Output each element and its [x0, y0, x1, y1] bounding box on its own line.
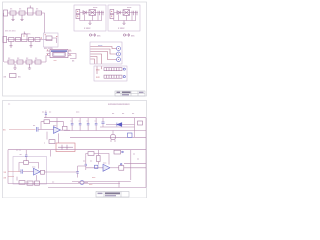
note box — [10, 74, 17, 78]
resistor R33 — [114, 150, 121, 154]
output wire — [61, 129, 71, 131]
B1 title — [93, 7, 98, 9]
output wire C — [110, 167, 146, 169]
J5 pin dots — [111, 11, 112, 17]
ground G7 — [89, 21, 92, 25]
resistor R36 — [35, 181, 40, 185]
ground G3 — [9, 42, 12, 48]
stage B bottom text — [27, 183, 30, 185]
top cap C10 — [45, 113, 47, 114]
resistor R6 — [16, 38, 21, 42]
ground G6 — [28, 64, 31, 69]
small part right — [138, 121, 143, 125]
cap C22 — [87, 123, 90, 125]
sheet2 title table — [96, 192, 129, 198]
resistor R12 — [35, 60, 41, 64]
connector J4 — [76, 10, 80, 19]
B3 title — [98, 45, 103, 47]
left rail — [7, 150, 9, 184]
stage B verticals — [17, 175, 37, 180]
wire into opamp C — [78, 166, 103, 168]
vertical drop right — [118, 181, 120, 187]
input wires — [8, 172, 21, 177]
resistor R10 — [17, 60, 23, 64]
bottom labels — [89, 184, 93, 186]
title block text — [117, 92, 121, 93]
output junction B — [41, 170, 45, 174]
B3 wire w6 — [90, 59, 94, 64]
stage A bottom text — [44, 143, 46, 145]
B3 wire w2 — [90, 49, 116, 54]
note tail — [18, 76, 21, 79]
B1 bottom label — [84, 28, 91, 30]
ground G4 — [29, 42, 32, 48]
pin dots C2 — [45, 34, 58, 37]
header H1 body — [104, 68, 122, 71]
psu box B2 outline — [108, 5, 140, 31]
op-amp U3 — [34, 168, 41, 175]
opamp top pin — [56, 118, 58, 128]
label right of U1 — [72, 61, 75, 63]
header H2 body — [104, 75, 122, 78]
sheet1 title block — [115, 91, 145, 96]
bus label — [16, 149, 22, 151]
stage B cap label — [20, 154, 23, 156]
resistor R5 — [9, 38, 15, 42]
top cap C13 — [25, 155, 27, 157]
cap C20 — [71, 123, 74, 125]
connector J5 — [110, 10, 114, 19]
wire y127 — [100, 126, 135, 128]
top rail bus — [44, 117, 146, 119]
diode D2 — [117, 11, 120, 15]
regulator VR1 — [89, 10, 96, 16]
vertical right of diode — [134, 118, 136, 138]
box B4 outline — [94, 66, 127, 81]
U1 left pins — [47, 51, 51, 56]
op-amp U4 — [103, 164, 110, 171]
sheet2 header text — [108, 103, 130, 106]
ground G2 — [20, 15, 23, 21]
bottom circle part Q2 — [78, 181, 88, 185]
feedback resistor R30 — [24, 161, 29, 165]
connector J1 — [4, 10, 8, 16]
B3 wire w5 — [90, 57, 97, 64]
feedback resistor R20 — [44, 120, 50, 124]
capacitor C5 — [136, 11, 137, 16]
red box contents — [58, 145, 73, 150]
IC U1 — [50, 50, 68, 58]
stage B box outline — [13, 157, 47, 185]
sheet 2 page outline — [3, 101, 147, 199]
input wire — [9, 128, 36, 130]
box B3 outline — [90, 42, 122, 64]
sheet2 title strip — [105, 192, 120, 194]
feedback loop wire — [41, 122, 44, 130]
red box outline — [56, 143, 75, 152]
resistor R11 — [26, 60, 32, 64]
right side labels — [133, 154, 140, 161]
transistor Q1 — [110, 131, 115, 143]
B1 rail drops — [85, 14, 99, 20]
R33 blue dot — [122, 151, 124, 153]
wire C up to U1 — [45, 56, 47, 63]
feedback resistor R32 — [88, 152, 94, 156]
regulator VR2 — [123, 10, 130, 16]
INR label — [4, 176, 7, 179]
vertical right C — [130, 150, 132, 180]
bottom resistor R21 — [49, 140, 55, 144]
capacitor C3 — [102, 11, 103, 16]
feedback loop — [19, 163, 24, 172]
op-amp U2 — [54, 127, 61, 134]
wire B2 main — [114, 12, 138, 14]
row 2 ref text — [96, 76, 100, 79]
H1 end pin — [123, 68, 125, 70]
row 1 ref text — [96, 69, 100, 72]
resistor R34 vertical — [97, 150, 101, 165]
wire right of U1 — [70, 54, 76, 59]
resistor R2 — [19, 11, 25, 15]
sub-circuit box C2 — [44, 33, 59, 47]
stage A verticals — [47, 132, 59, 143]
stage C labels — [83, 161, 107, 165]
wire B1 main — [80, 12, 104, 14]
labels upper right — [76, 112, 135, 116]
wire C2 internal — [52, 38, 57, 43]
cap C16 — [76, 172, 78, 174]
resistor R7 — [29, 38, 34, 42]
B1 rail — [80, 13, 102, 21]
left input bus — [2, 13, 4, 62]
ground G1 — [11, 15, 14, 21]
output junction box — [63, 126, 68, 130]
sheet2 corner mark — [8, 104, 11, 106]
capacitor C2 — [98, 11, 99, 16]
pin dots row B — [23, 35, 42, 38]
wire A to C2 — [42, 13, 45, 33]
row A value labels — [10, 9, 39, 11]
input cap C14 — [21, 169, 23, 173]
wire row B — [7, 39, 52, 41]
label above IC U1 — [44, 48, 54, 50]
U1 right pins — [68, 51, 72, 56]
resistor R1 — [10, 11, 16, 15]
row C labels — [8, 58, 38, 60]
below-B2 label — [131, 36, 135, 38]
U3 label — [32, 167, 36, 169]
below-B1 label — [97, 36, 101, 38]
B2 rail drops — [119, 14, 133, 20]
IN label — [3, 129, 6, 132]
diode D10 — [117, 123, 122, 127]
cap C21 — [79, 123, 82, 125]
socket pin P3 — [117, 58, 121, 62]
ground G8 — [123, 21, 126, 25]
right rail — [145, 118, 147, 188]
text specks row — [5, 31, 31, 36]
resistor R4 — [36, 11, 42, 15]
B3 wire w4 — [90, 54, 101, 64]
sheet1 bottom-left note — [4, 76, 7, 79]
below-B2 net marker — [123, 33, 129, 36]
mid bus — [64, 130, 146, 132]
low bus — [70, 136, 146, 138]
wire y124.5 — [106, 124, 135, 126]
wire row A — [8, 12, 43, 14]
below-B1 net marker — [89, 33, 95, 36]
B2 rail — [114, 13, 136, 21]
B3 wire w3 — [90, 52, 116, 60]
diode D1 — [83, 11, 86, 15]
stage C red text — [92, 177, 96, 179]
U1 bottom red text — [54, 60, 57, 62]
trimmer inside C2 — [46, 36, 52, 41]
svg-text:xxx xx xxx: xxx xx xxx — [5, 31, 16, 33]
sheet 1 page outline — [3, 2, 147, 96]
wire red box to stage B — [50, 150, 52, 157]
inter-box drop wires — [97, 66, 102, 74]
ground G5 — [13, 64, 16, 69]
psu box B1 outline — [74, 5, 106, 31]
output wire B — [45, 171, 78, 173]
B3 wire w1 — [90, 47, 116, 49]
junction blue dot — [120, 163, 122, 165]
stage A labels — [33, 111, 57, 127]
bottom bus 2 — [48, 187, 146, 189]
connector J2 — [3, 37, 7, 43]
wire row C — [4, 61, 46, 63]
svg-text:xxx: xxx — [54, 60, 57, 62]
resistor R8 — [35, 38, 40, 42]
potentiometer RV1 — [28, 6, 34, 16]
B2 title — [127, 7, 132, 9]
socket pin P1 — [117, 47, 121, 51]
input cap C11 — [36, 127, 38, 132]
capacitor C4 — [132, 11, 133, 16]
long bus 2 — [8, 149, 146, 151]
output junction C — [119, 166, 124, 171]
B2 bottom label — [118, 28, 125, 30]
INL label — [4, 171, 7, 174]
cap C23 — [95, 123, 98, 125]
H2 end pin — [123, 76, 125, 78]
svg-text:x xxxx: x xxxx — [84, 28, 91, 30]
bottom resistor R31 — [19, 181, 25, 185]
resistor R35 — [27, 181, 33, 185]
stage C bottom wire — [72, 180, 131, 182]
svg-text:x xxxx: x xxxx — [118, 28, 125, 30]
potentiometer RV2 — [22, 32, 28, 42]
socket pin P2 — [117, 52, 121, 56]
decoupling cap bank labels — [71, 120, 97, 122]
feedback loop C — [86, 154, 88, 156]
pin inner dots — [118, 48, 119, 60]
cap C15 — [85, 164, 87, 166]
bottom bus 1 — [8, 183, 120, 185]
resistor R9 — [8, 60, 14, 64]
upper right stub — [124, 162, 146, 164]
blue box part — [128, 133, 133, 137]
U1 pin dots — [47, 49, 71, 55]
svg-text:xxxxxxxxxxxxxxxxxx: xxxxxxxxxxxxxxxxxx — [108, 103, 130, 106]
small part mid C — [95, 165, 98, 168]
J4 pin dots — [77, 11, 78, 17]
wire cap to opamp — [38, 128, 54, 130]
wire cap to opamp B — [23, 171, 34, 173]
cap C12 — [102, 122, 105, 124]
